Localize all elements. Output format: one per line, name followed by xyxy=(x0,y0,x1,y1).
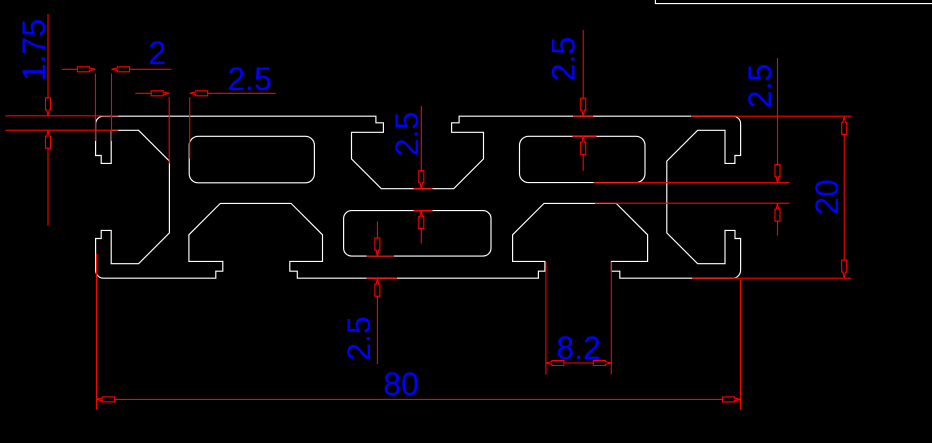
cavity C3 middle rounded slot xyxy=(344,211,491,257)
shaft 2.5s upper xyxy=(420,106,422,171)
shaft 2.5r lower xyxy=(777,221,779,235)
ext lines 80 xyxy=(97,254,741,410)
svg-text:20: 20 xyxy=(809,179,845,215)
profile outline: 20x80 extrusion outer boundary xyxy=(96,116,741,278)
dim lines 1.75 xyxy=(6,116,119,130)
arrow up 2.5s xyxy=(419,211,424,229)
arrow up 2.5r xyxy=(775,203,780,221)
arrow right 2 xyxy=(77,67,95,72)
dimension 2.5 cavity top (rotated) xyxy=(545,30,596,171)
dimension 80 xyxy=(97,254,741,410)
stub lines 2.5c xyxy=(573,116,597,136)
shaft 1.75 lower xyxy=(47,148,49,226)
arrow right-point 8.2 xyxy=(593,361,611,366)
arrow down 20 bottom xyxy=(842,260,847,278)
svg-text:2.5: 2.5 xyxy=(341,316,377,360)
arrow up 1.75 xyxy=(46,130,51,148)
svg-text:1.75: 1.75 xyxy=(16,19,52,81)
arrow right 2.5tl xyxy=(151,91,169,96)
dim line 80 xyxy=(115,398,723,400)
shaft 1.75 upper xyxy=(47,14,49,98)
dimension 2 xyxy=(62,35,172,141)
dimension 20 (rotated) xyxy=(691,116,851,278)
stub lines 2.5s xyxy=(414,189,433,211)
arrow up 2.5c xyxy=(581,136,586,154)
extension lines 2.5tl xyxy=(169,97,190,163)
dimension 2.5 right web (rotated) xyxy=(594,58,790,236)
shaft 2.5r upper xyxy=(777,58,779,165)
ext lines 2.5r xyxy=(594,183,790,204)
svg-text:2.5: 2.5 xyxy=(545,37,581,81)
cavity C4 top-right rounded slot xyxy=(520,136,646,182)
dimension 1.75 xyxy=(6,14,119,226)
svg-text:2.5: 2.5 xyxy=(389,112,425,156)
dim line tails 2.5 xyxy=(135,92,275,94)
arrow down 2.5b xyxy=(375,238,380,256)
arrow left-point 8.2 xyxy=(546,361,564,366)
arrow up 2.5b xyxy=(375,278,380,296)
arrow up 20 top xyxy=(842,116,847,134)
arrow down 2.5r xyxy=(775,165,780,183)
ext lines 20 xyxy=(691,116,851,278)
dimension 2.5 bottom middle (rotated) xyxy=(341,222,397,365)
svg-text:2: 2 xyxy=(148,35,166,71)
arrow left 2 xyxy=(112,67,130,72)
shaft 2.5b lower xyxy=(376,296,378,364)
svg-text:2.5: 2.5 xyxy=(742,64,778,108)
dim line 8.2 xyxy=(564,362,593,364)
arrow left 2.5tl xyxy=(190,91,208,96)
arrow down 1.75 xyxy=(46,98,51,116)
dim line tails 2 xyxy=(62,68,172,70)
shaft 2.5c lower xyxy=(582,154,584,171)
svg-text:8.2: 8.2 xyxy=(556,330,600,366)
frame: viewport border corner top-right xyxy=(655,0,932,4)
shaft 2.5b upper xyxy=(376,222,378,239)
arrow down 2.5s xyxy=(419,171,424,189)
svg-text:2.5: 2.5 xyxy=(227,61,271,97)
extension lines 2 xyxy=(95,74,111,141)
dimension 2.5 top slot web (rotated) xyxy=(389,106,433,244)
shaft 2.5s lower xyxy=(420,229,422,244)
stub lines 2.5b xyxy=(367,256,398,278)
ext lines 8.2 xyxy=(546,262,611,375)
svg-text:80: 80 xyxy=(383,366,419,402)
dim line 20 xyxy=(843,134,845,260)
arrow down 2.5c xyxy=(581,98,586,116)
arrow left-point 80 xyxy=(97,397,115,402)
cavity C1 top-left rounded slot xyxy=(189,136,314,183)
shaft 2.5c upper xyxy=(582,30,584,98)
dimension 8.2 xyxy=(546,262,611,375)
arrow right-point 80 xyxy=(723,397,741,402)
dimension 2.5 top-left xyxy=(135,61,275,164)
